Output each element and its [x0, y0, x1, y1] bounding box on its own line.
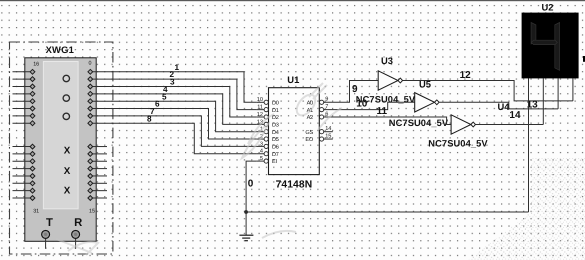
svg-text:D2: D2 [272, 115, 279, 121]
node net label 11 [377, 106, 388, 117]
U1 pin 4 input D7 [256, 149, 278, 158]
node net label 5 [162, 92, 167, 101]
XWG1 right pin 6 [88, 114, 93, 119]
inverter U4 [451, 115, 475, 134]
XWG1 left pin 20 [13, 99, 35, 104]
node net label 0 [248, 179, 254, 190]
svg-text:12: 12 [257, 112, 263, 118]
XWG1 corner pin number 15 [89, 209, 95, 215]
XWG1 corner pin number 16 [33, 61, 39, 67]
wire net 5 XWG1 pin 4 to U1 D4 [93, 101, 257, 132]
XWG1 terminal T [42, 230, 50, 248]
svg-text:10: 10 [257, 97, 263, 103]
svg-text:XWG1: XWG1 [46, 44, 74, 55]
XWG1 right pin 0 [88, 69, 93, 74]
svg-text:4: 4 [260, 149, 263, 155]
svg-text:74148N: 74148N [276, 179, 313, 190]
XWG1 left pin 27 [13, 166, 35, 171]
svg-text:15: 15 [89, 209, 95, 215]
svg-text:D3: D3 [272, 122, 279, 128]
XWG1 right pin 12 [88, 174, 107, 179]
wire net 1 XWG1 pin 0 to U1 D0 [93, 72, 257, 103]
wire net 13 U5 output to U2 pin 3 [439, 102, 558, 109]
value label NC7SU04_5V of U3 [356, 95, 416, 105]
svg-text:14: 14 [325, 126, 331, 132]
display U2 pin 4 wire [572, 78, 574, 101]
svg-text:R: R [74, 217, 82, 229]
XWG1 left pin 17 [13, 77, 35, 82]
U1 pin 3 input D6 [256, 141, 278, 150]
wire net 7 XWG1 pin 6 to U1 D6 [93, 116, 257, 146]
value label NC7SU04_5V of U4 [428, 139, 488, 149]
svg-text:U3: U3 [381, 55, 393, 66]
svg-text:T: T [46, 217, 53, 229]
display U2 pin 2 wire [542, 78, 544, 124]
XWG1 right pin 9 [88, 152, 107, 157]
XWG1 right pin 15 [88, 196, 107, 201]
svg-text:X: X [64, 186, 71, 197]
node net label 1 [175, 63, 180, 72]
svg-text:U2: U2 [542, 2, 554, 13]
svg-text:15: 15 [325, 133, 331, 139]
XWG1 right pin 3 [88, 91, 93, 96]
wire net 9 U1 A0 to U3 input [324, 81, 378, 103]
U1 pin 1 input D4 [256, 127, 278, 136]
label U4 [498, 101, 511, 112]
svg-text:9: 9 [325, 97, 328, 103]
U1 pin 9 output A0 [307, 97, 329, 107]
cut-off label at right edge [583, 56, 585, 62]
svg-text:X: X [64, 145, 71, 156]
U1 pin 13 input D3 [256, 119, 278, 128]
XWG1 corner pin number 31 [33, 209, 39, 215]
XWG1 left pin 18 [13, 84, 35, 89]
XWG1 right pin 7 [88, 121, 93, 126]
XWG1 left pin 19 [13, 91, 35, 96]
instrument XWG1 dashed selection box [10, 42, 113, 254]
U2 segment g (digit 4) [531, 40, 557, 44]
svg-text:EO: EO [305, 137, 313, 143]
XWG1 corner pin number 0 [89, 60, 92, 66]
svg-text:D1: D1 [272, 108, 279, 114]
node net label 13 [527, 100, 539, 111]
svg-text:D6: D6 [272, 145, 279, 151]
wire net 3 XWG1 pin 2 to U1 D2 [93, 87, 257, 118]
U1 pin 5 input EI [256, 156, 277, 165]
XWG1 left pin 23 [13, 121, 35, 126]
node net label 3 [170, 78, 175, 87]
svg-text:0: 0 [248, 179, 254, 190]
U1 pin 12 input D2 [256, 112, 278, 121]
svg-text:3: 3 [170, 78, 175, 87]
XWG1 left pin 22 [13, 114, 35, 119]
XWG1 inner display panel [43, 62, 78, 209]
svg-text:D0: D0 [272, 100, 279, 106]
XWG1 left pin 26 [13, 159, 35, 164]
svg-text:EI: EI [272, 159, 277, 165]
node net label 9 [352, 84, 358, 95]
inverter U5 [415, 93, 439, 112]
XWG1 left pin 16 [13, 69, 35, 74]
wire net 14 U4 output to U2 pin 2 [476, 124, 544, 126]
XWG1 left pin 30 [13, 188, 35, 193]
node net label 7 [150, 107, 155, 116]
wire net 2 XWG1 pin 1 to U1 D1 [93, 79, 257, 110]
wire net 0 U1 EI to ground [246, 161, 528, 212]
svg-text:A2: A2 [307, 115, 313, 121]
XWG1 terminal label T [46, 217, 53, 229]
XWG1 left pin 25 [13, 152, 35, 157]
svg-text:11: 11 [257, 105, 263, 111]
svg-text:3: 3 [260, 141, 263, 147]
svg-text:16: 16 [33, 61, 39, 67]
junction ground node [244, 210, 248, 214]
U1 pin 14 output GS [305, 126, 332, 136]
XWG1 right pin 5 [88, 106, 93, 111]
XWG1 right pin 2 [88, 84, 93, 89]
decorative watermark strokes (not labelled components) [56, 83, 342, 255]
svg-text:1: 1 [175, 63, 180, 72]
svg-text:D7: D7 [272, 152, 279, 158]
wire net 11 U1 A2 to U4 input [324, 117, 451, 125]
label XWG1 [46, 44, 74, 55]
XWG1 panel X markers [64, 145, 71, 156]
U1 pin 15 output EO [305, 133, 332, 143]
XWG1 right pin 1 [88, 77, 93, 82]
XWG1 left pin 24 [13, 144, 35, 149]
svg-text:5: 5 [260, 156, 263, 162]
svg-text:NC7SU04_5V: NC7SU04_5V [389, 118, 449, 128]
value label NC7SU04_5V of U5 [389, 118, 449, 128]
svg-text:NC7SU04_5V: NC7SU04_5V [428, 139, 488, 149]
svg-text:GS: GS [305, 130, 313, 136]
display U2 pin 1 wire (ground) [528, 78, 530, 212]
svg-text:A0: A0 [307, 100, 313, 106]
label U3 [381, 55, 393, 66]
svg-text:D4: D4 [272, 130, 279, 136]
U1 pin 6 output A2 [307, 111, 329, 121]
display U2 pin 3 wire [557, 78, 559, 109]
label U2 [542, 2, 554, 13]
svg-text:5: 5 [162, 92, 167, 101]
svg-text:11: 11 [377, 106, 388, 117]
node net label 8 [147, 114, 152, 123]
XWG1 left pin 28 [13, 174, 35, 179]
svg-text:0: 0 [89, 60, 92, 66]
svg-text:D5: D5 [272, 137, 279, 143]
node net label 4 [163, 85, 168, 94]
U2 segment f (digit 4) [531, 23, 536, 45]
XWG1 right pin 14 [88, 188, 107, 193]
value label 74148N [276, 179, 313, 190]
ground [239, 212, 253, 241]
svg-text:31: 31 [33, 209, 39, 215]
wire net 4 XWG1 pin 3 to U1 D3 [93, 94, 257, 125]
wire net 10 U1 A1 to U5 input [324, 102, 415, 109]
XWG1 left pin 29 [13, 181, 35, 186]
watermark speckle bottom-right [468, 158, 585, 260]
top window border [0, 0, 585, 1]
XWG1 right pin 8 [88, 144, 107, 149]
seven-segment display U2 body [522, 13, 579, 79]
svg-text:9: 9 [352, 84, 358, 95]
XWG1 left pin 31 [13, 196, 35, 201]
U1 pin 10 input D0 [256, 97, 278, 106]
XWG1 terminal R [72, 230, 80, 248]
wire net 12 U3 output to U2 pin 4 [403, 81, 573, 101]
U2 segment b+c (digit 4) [555, 23, 560, 71]
svg-text:14: 14 [509, 110, 521, 121]
XWG1 right pin 4 [88, 99, 93, 104]
label U1 [287, 74, 299, 85]
XWG1 left pin 21 [13, 106, 35, 111]
inverter U3 [378, 71, 402, 90]
XWG1 terminal label R [74, 217, 82, 229]
U1 pin 11 input D1 [256, 105, 278, 114]
node net label 14 [509, 110, 521, 121]
XWG1 body [25, 58, 96, 242]
node net label 10 [356, 98, 368, 109]
svg-text:8: 8 [147, 114, 152, 123]
svg-text:U1: U1 [287, 74, 299, 85]
svg-text:X: X [64, 166, 71, 177]
svg-text:12: 12 [460, 70, 472, 81]
wire net 8 XWG1 pin 7 to U1 D7 [93, 123, 257, 154]
svg-text:10: 10 [356, 98, 368, 109]
U1 pin 7 output A1 [307, 104, 329, 114]
IC U1 74148N body [269, 88, 320, 175]
label U5 [419, 79, 431, 90]
XWG1 right pin 10 [88, 159, 107, 164]
XWG1 right pin 13 [88, 181, 107, 186]
wire net 6 XWG1 pin 5 to U1 D5 [93, 109, 257, 140]
XWG1 panel O markers [63, 75, 69, 81]
node net label 2 [170, 70, 175, 79]
U1 pin 2 input D5 [256, 134, 278, 143]
XWG1 right pin 11 [88, 166, 107, 171]
node net label 12 [460, 70, 472, 81]
node net label 6 [155, 100, 160, 109]
svg-text:6: 6 [155, 100, 160, 109]
